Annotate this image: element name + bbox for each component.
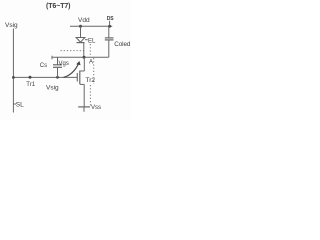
svg-text:SL: SL	[16, 102, 24, 109]
svg-text:EL: EL	[88, 39, 96, 45]
node junction DS	[108, 25, 111, 28]
diode EL cathode bar	[77, 42, 85, 44]
wire node A horizontal line	[52, 56, 109, 58]
dashed current path right of Tr2 source	[89, 85, 91, 106]
svg-text:DS: DS	[107, 16, 114, 22]
capacitor Cs lower stub	[57, 68, 59, 78]
wire SL label leader	[14, 103, 16, 105]
label Vsig (gate node)	[46, 84, 59, 91]
terminal Vss bar	[78, 106, 90, 108]
diode EL triangle	[76, 38, 85, 43]
node junction Vdd	[79, 25, 82, 28]
wire top power line	[70, 25, 112, 27]
terminal Vss stub	[83, 107, 85, 111]
dashed current path right of Tr2 drain	[93, 58, 95, 84]
annotation Vgs arrow	[64, 64, 79, 78]
wire DS leader	[109, 21, 111, 25]
capacitor Coled plates	[105, 37, 114, 39]
capacitor Coled lower stub	[108, 40, 110, 57]
dashed current path right of EL	[89, 44, 91, 56]
transistor Tr2 drain lead	[83, 57, 85, 71]
label Coled	[114, 41, 131, 48]
svg-text:(T6~T7): (T6~T7)	[46, 3, 70, 10]
wire signal line SL vertical rail	[12, 29, 14, 113]
capacitor Coled upper stub	[108, 26, 110, 37]
label Vgs	[59, 61, 69, 67]
wire EL anode stub	[80, 26, 82, 37]
svg-text:Vgs: Vgs	[59, 61, 69, 67]
node junction SL-gate	[12, 76, 15, 79]
transistor Tr2 gate bar	[76, 73, 78, 82]
svg-text:Coled: Coled	[114, 41, 131, 48]
svg-text:Vsig: Vsig	[46, 84, 59, 91]
node junction Cs-gate	[56, 76, 59, 79]
svg-text:Tr1: Tr1	[26, 82, 35, 88]
dashed current path horizontal	[61, 50, 84, 52]
label Tr2	[86, 77, 96, 84]
transistor Tr2 channel bar	[79, 71, 81, 85]
label Tr1	[26, 82, 35, 88]
label Vsig (signal line, top left)	[5, 22, 18, 29]
label DS	[107, 16, 114, 22]
svg-text:Vdd: Vdd	[78, 17, 90, 24]
capacitor Cs plates	[53, 66, 62, 68]
title (T6~T7)	[46, 3, 70, 10]
label Vss	[91, 105, 101, 111]
transistor Tr1 (dot on wire)	[29, 76, 32, 79]
label Cs	[40, 63, 47, 69]
wire EL cathode to node A	[83, 43, 85, 58]
label EL with leader	[85, 39, 88, 41]
capacitor Cs upper stub	[57, 57, 59, 65]
svg-text:Cs: Cs	[40, 63, 47, 69]
label SL	[16, 102, 24, 109]
svg-text:A: A	[89, 60, 93, 66]
svg-text:Vsig: Vsig	[5, 22, 18, 29]
label node A	[89, 60, 93, 66]
svg-text:Vss: Vss	[91, 105, 101, 111]
transistor Tr2 source lead	[80, 83, 84, 85]
wire gate line horizontal	[13, 76, 77, 78]
node A junction dot	[83, 56, 86, 59]
label Vdd	[78, 17, 90, 24]
